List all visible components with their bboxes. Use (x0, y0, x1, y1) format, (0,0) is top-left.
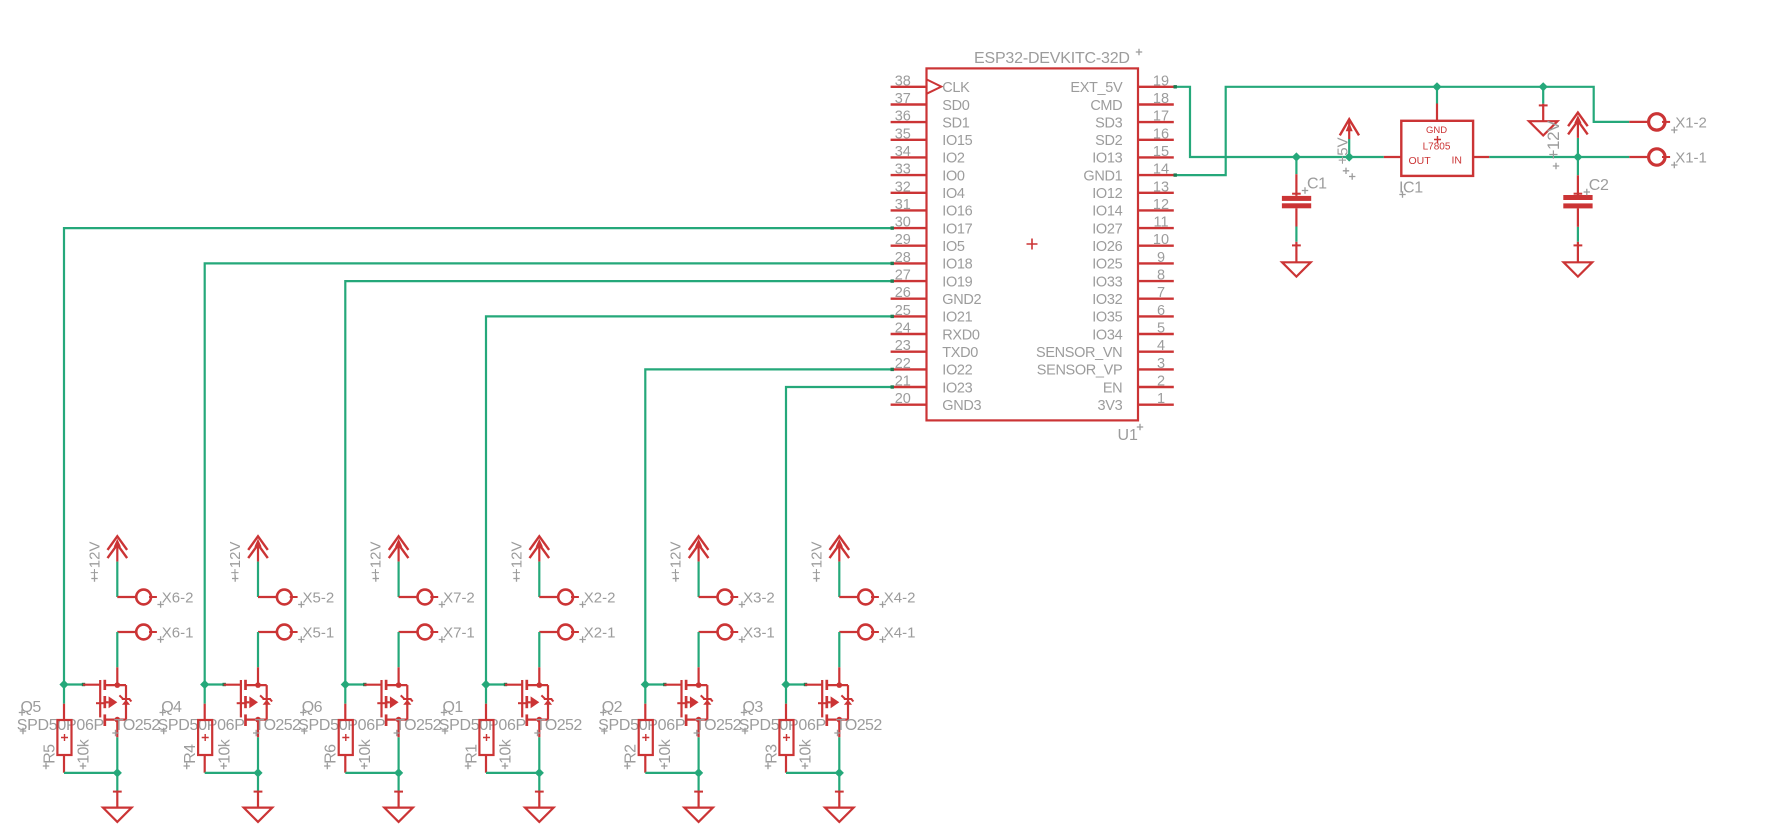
svg-text:X1-1: X1-1 (1675, 150, 1707, 167)
U1 pin 7 IO32 (1092, 285, 1174, 308)
svg-text:X2-2: X2-2 (584, 589, 616, 606)
svg-text:IO18: IO18 (942, 257, 972, 273)
wire R2 bottom to source node (645, 772, 698, 774)
label R6 value 10k (357, 738, 374, 769)
label X6-1 (157, 624, 193, 642)
resistor R4 10k (198, 685, 212, 773)
svg-text:X7-1: X7-1 (443, 624, 475, 641)
U1 pin 2 EN (1103, 374, 1174, 397)
svg-text:36: 36 (895, 109, 911, 125)
wire net from U1 pin to gate of Q5 (64, 226, 894, 684)
svg-text:X1-2: X1-2 (1675, 115, 1707, 132)
svg-text:30: 30 (895, 215, 911, 231)
svg-text:CMD: CMD (1090, 98, 1122, 114)
ground GND top (1529, 104, 1558, 136)
label R2 value 10k (657, 738, 674, 769)
svg-text:IO15: IO15 (942, 133, 972, 149)
svg-text:10k: 10k (498, 738, 515, 764)
wire net from U1 pin to gate of Q2 (645, 368, 894, 685)
svg-text:OUT: OUT (1409, 155, 1432, 167)
label Q1 package TO252 (534, 717, 582, 736)
label U1 reference designator (1118, 424, 1144, 444)
U1 pin 13 IO12 (1092, 179, 1174, 202)
label Q3 package TO252 (834, 717, 882, 736)
connector pad X6-1 (136, 625, 157, 640)
connector pad X4-2 (858, 590, 879, 605)
svg-text:X3-2: X3-2 (743, 589, 775, 606)
label Q4 value SPD50P06P (158, 717, 245, 734)
svg-text:TO252: TO252 (255, 717, 301, 734)
transistor Q1 P-MOSFET SPD50P06P (505, 667, 553, 737)
wire pad X7-1 to drain of Q6 (399, 632, 417, 667)
wire gate stub Q2 (645, 683, 666, 686)
svg-text:10k: 10k (657, 738, 674, 764)
svg-text:X4-2: X4-2 (884, 589, 916, 606)
wire pad X4-1 to drain of Q3 (839, 632, 857, 667)
svg-text:20: 20 (895, 391, 911, 407)
label X6-2 (157, 589, 193, 607)
svg-text:12: 12 (1153, 197, 1169, 213)
voltage regulator IC1 L7805 (1384, 104, 1490, 176)
label C1 (1302, 176, 1327, 194)
svg-text:GND: GND (1426, 125, 1447, 136)
svg-text:SD2: SD2 (1095, 133, 1122, 149)
supply symbol +12V X4 (830, 536, 850, 561)
wire net EXT_5V from U1 pin 19 to regulator OUT (1174, 85, 1384, 157)
junction source/ground node Q2 (694, 768, 703, 777)
svg-text:TO252: TO252 (395, 717, 441, 734)
label X2-1 (579, 624, 615, 642)
U1 pin 8 IO33 (1092, 268, 1174, 291)
svg-text:X7-2: X7-2 (443, 589, 475, 606)
wire gate stub Q6 (345, 683, 366, 686)
svg-text:R1: R1 (463, 744, 480, 764)
svg-text:Q3: Q3 (743, 699, 764, 716)
junction source/ground node Q6 (394, 768, 403, 777)
svg-text:X4-1: X4-1 (884, 624, 916, 641)
svg-text:IO2: IO2 (942, 151, 965, 167)
label Q6 (300, 699, 323, 716)
svg-text:X2-1: X2-1 (584, 624, 616, 641)
svg-text:21: 21 (895, 374, 911, 390)
U1 pin 16 SD2 (1095, 126, 1174, 149)
svg-text:19: 19 (1153, 73, 1169, 89)
wire +12V to pad X3-2 (699, 562, 717, 597)
svg-text:27: 27 (895, 268, 911, 284)
supply symbol +12V main (1568, 113, 1588, 138)
U1 pin 6 IO35 (1092, 303, 1174, 326)
svg-text:C2: C2 (1589, 177, 1609, 194)
svg-text:IO32: IO32 (1092, 292, 1122, 308)
label Q5 value SPD50P06P (17, 717, 104, 734)
connector pad X2-2 (558, 590, 579, 605)
svg-text:IO17: IO17 (942, 221, 972, 237)
svg-text:IN: IN (1452, 155, 1463, 167)
svg-text:IO25: IO25 (1092, 257, 1122, 273)
U1 pin 17 SD3 (1095, 109, 1174, 132)
wire +12V to pad X4-2 (839, 562, 857, 597)
wire gate stub Q1 (486, 683, 507, 686)
wire gate stub Q5 (64, 683, 85, 686)
U1 pin 21 IO23 (891, 374, 973, 397)
label X3-2 (739, 589, 775, 607)
junction GND at ground symbol (1539, 82, 1548, 91)
svg-text:3V3: 3V3 (1098, 398, 1123, 414)
wire +12V to pad X5-2 (258, 562, 276, 597)
svg-text:IO16: IO16 (942, 204, 972, 220)
svg-text:18: 18 (1153, 91, 1169, 107)
label R4 (182, 744, 199, 769)
wire R6 bottom to source node (345, 772, 398, 774)
U1 pin 26 GND2 (891, 285, 982, 308)
junction gate node Q6 (341, 680, 350, 689)
wire pad X6-1 to drain of Q5 (117, 632, 135, 667)
wire pad X2-1 to drain of Q1 (539, 632, 557, 667)
label R3 value 10k (798, 738, 815, 769)
connector pad X1-1 (1629, 149, 1670, 165)
svg-text:26: 26 (895, 285, 911, 301)
U1 pin 5 IO34 (1092, 321, 1174, 344)
label net +12V at X7 (368, 542, 385, 582)
ground below Q5 (103, 791, 132, 822)
svg-text:R3: R3 (763, 744, 780, 764)
junction GND at regulator (1432, 82, 1441, 91)
label Q6 value SPD50P06P (298, 717, 385, 734)
U1 pin 23 TXD0 (891, 338, 979, 361)
svg-text:3: 3 (1157, 356, 1165, 372)
clock input symbol on pin CLK (927, 79, 942, 93)
svg-text:R4: R4 (182, 744, 199, 764)
svg-text:Q1: Q1 (443, 699, 464, 716)
svg-text:+12V: +12V (86, 542, 103, 577)
transistor Q3 P-MOSFET SPD50P06P (805, 667, 853, 737)
U1 pin 11 IO27 (1092, 215, 1174, 238)
svg-text:14: 14 (1153, 162, 1169, 178)
wire net +12V from regulator IN to X1-1 (1489, 156, 1629, 158)
svg-text:SD1: SD1 (942, 115, 969, 131)
wire source of Q2 down (697, 737, 699, 773)
U1 pin 34 IO2 (891, 144, 965, 167)
label Q1 (441, 699, 464, 716)
label R1 value 10k (498, 738, 515, 769)
label R2 (623, 744, 640, 769)
svg-text:IO21: IO21 (942, 310, 972, 326)
junction C1 top (1292, 152, 1301, 161)
label X1-1 (1671, 150, 1707, 169)
svg-text:IO23: IO23 (942, 380, 972, 396)
wire to ground Q4 (257, 773, 259, 791)
connector pad X5-2 (277, 590, 298, 605)
resistor R6 10k (339, 685, 353, 773)
wire to ground Q1 (538, 773, 540, 791)
svg-text:15: 15 (1153, 144, 1169, 160)
svg-text:16: 16 (1153, 126, 1169, 142)
svg-text:24: 24 (895, 321, 911, 337)
U1 pin 27 IO19 (891, 268, 973, 291)
label Q4 package TO252 (253, 717, 301, 736)
label R1 (463, 744, 480, 769)
svg-text:25: 25 (895, 303, 911, 319)
label R4 value 10k (216, 738, 233, 769)
wire net GND from U1 pin 14 GND1 along top (1174, 87, 1630, 177)
label Q2 (600, 699, 623, 716)
label R5 (41, 744, 58, 769)
wire pad X3-1 to drain of Q2 (699, 632, 717, 667)
junction gate node Q2 (641, 680, 650, 689)
svg-text:13: 13 (1153, 179, 1169, 195)
svg-text:GND1: GND1 (1083, 168, 1122, 184)
ground below C1 (1282, 242, 1311, 277)
svg-text:Q5: Q5 (21, 699, 42, 716)
svg-text:33: 33 (895, 162, 911, 178)
ground below Q3 (825, 791, 854, 822)
svg-text:RXD0: RXD0 (942, 327, 980, 343)
wire net from U1 pin to gate of Q3 (786, 385, 894, 684)
svg-text:C1: C1 (1307, 176, 1327, 193)
svg-text:17: 17 (1153, 109, 1169, 125)
label Q5 (19, 699, 42, 716)
U1 pin 29 IO5 (891, 232, 965, 255)
svg-text:IO26: IO26 (1092, 239, 1122, 255)
wire gate stub Q3 (786, 683, 807, 686)
svg-text:L7805: L7805 (1423, 142, 1451, 153)
svg-text:10k: 10k (798, 738, 815, 764)
supply symbol +5V (1340, 119, 1359, 157)
connector pad X7-2 (418, 590, 439, 605)
label Q2 package TO252 (694, 717, 742, 736)
label net +12V at X3 (668, 542, 685, 582)
label net +12V at X6 (86, 542, 103, 582)
junction gate node Q3 (781, 680, 790, 689)
wire source of Q6 down (398, 737, 400, 773)
svg-text:11: 11 (1153, 215, 1168, 231)
U1 pin 35 IO15 (891, 126, 973, 149)
label R5 value 10k (76, 738, 93, 769)
svg-text:+12V: +12V (368, 542, 385, 577)
label net +12V at X4 (808, 542, 825, 582)
wire to ground Q6 (398, 773, 400, 791)
svg-text:IO35: IO35 (1092, 310, 1122, 326)
junction source/ground node Q5 (113, 768, 122, 777)
label Q5 package TO252 (112, 717, 160, 736)
U1 pin 18 CMD (1090, 91, 1173, 114)
label Q1 value SPD50P06P (439, 717, 526, 734)
label net +12V at X2 (508, 542, 525, 582)
transistor Q5 P-MOSFET SPD50P06P (83, 667, 131, 737)
svg-text:10: 10 (1153, 232, 1169, 248)
svg-text:+12V: +12V (1544, 120, 1563, 160)
U1 pin 37 SD0 (891, 91, 970, 114)
svg-text:10k: 10k (357, 738, 374, 764)
svg-text:TO252: TO252 (836, 717, 882, 734)
svg-text:EXT_5V: EXT_5V (1070, 80, 1123, 96)
label X4-1 (879, 624, 915, 642)
junction gate node Q1 (481, 680, 490, 689)
svg-text:R5: R5 (41, 744, 58, 764)
resistor R1 10k (479, 685, 493, 773)
svg-text:SENSOR_VP: SENSOR_VP (1037, 363, 1123, 379)
svg-text:10k: 10k (216, 738, 233, 764)
label X2-2 (579, 589, 615, 607)
svg-text:5: 5 (1157, 321, 1165, 337)
U1 origin cross (1027, 239, 1038, 250)
svg-text:SD0: SD0 (942, 98, 969, 114)
U1 pin 31 IO16 (891, 197, 973, 220)
svg-text:SD3: SD3 (1095, 115, 1122, 131)
label net +12V main (1544, 120, 1563, 169)
supply symbol +12V X7 (389, 536, 409, 561)
capacitor C2 (1563, 157, 1592, 242)
transistor Q2 P-MOSFET SPD50P06P (664, 667, 712, 737)
resistor R2 10k (639, 685, 653, 773)
transistor Q6 P-MOSFET SPD50P06P (364, 667, 412, 737)
svg-text:Q6: Q6 (302, 699, 323, 716)
svg-text:TXD0: TXD0 (942, 345, 978, 361)
label Q2 value SPD50P06P (598, 717, 685, 734)
wire net from U1 pin to gate of Q1 (486, 315, 894, 685)
connector pad X3-1 (718, 625, 739, 640)
svg-text:Q2: Q2 (602, 699, 623, 716)
svg-text:X6-1: X6-1 (162, 624, 194, 641)
U1 pin 1 3V3 (1098, 391, 1174, 414)
label X7-2 (439, 589, 475, 607)
connector pad X2-1 (558, 625, 579, 640)
resistor R3 10k (779, 685, 793, 773)
U1 pin 12 IO14 (1092, 197, 1174, 220)
supply symbol +12V X3 (689, 536, 709, 561)
U1 pin 24 RXD0 (891, 321, 980, 344)
label X5-2 (298, 589, 334, 607)
svg-text:IO13: IO13 (1092, 151, 1122, 167)
svg-text:TO252: TO252 (536, 717, 582, 734)
svg-text:TO252: TO252 (695, 717, 741, 734)
label Q3 value SPD50P06P (739, 717, 826, 734)
svg-text:6: 6 (1157, 303, 1165, 319)
U1 pin 3 SENSOR_VP (1037, 356, 1174, 379)
svg-text:X3-1: X3-1 (743, 624, 775, 641)
svg-text:X5-2: X5-2 (303, 589, 335, 606)
U1 pin 14 GND1 (1083, 162, 1173, 185)
label net +5V (1335, 137, 1356, 179)
svg-text:7: 7 (1157, 285, 1165, 301)
U1 pin 19 EXT_5V (1070, 73, 1173, 96)
wire to ground Q5 (116, 773, 118, 791)
label U1 part name ESP32-DEVKITC-32D (974, 49, 1142, 67)
label X1-2 (1671, 115, 1707, 134)
U1 pin 9 IO25 (1092, 250, 1174, 273)
svg-text:Q4: Q4 (161, 699, 182, 716)
label IC1 (1399, 180, 1423, 198)
svg-text:R6: R6 (323, 744, 340, 764)
junction gate node Q4 (200, 680, 209, 689)
U1 pin 38 CLK (891, 73, 971, 96)
wire gate stub Q4 (205, 683, 226, 686)
junction +5V node (1345, 152, 1354, 161)
junction +12V node (1573, 152, 1582, 161)
transistor Q4 P-MOSFET SPD50P06P (224, 667, 272, 737)
label Q4 (160, 699, 183, 716)
svg-text:X5-1: X5-1 (303, 624, 335, 641)
wire R5 bottom to source node (64, 772, 117, 774)
svg-text:+12V: +12V (508, 542, 525, 577)
wire pad X5-1 to drain of Q4 (258, 632, 276, 667)
svg-text:34: 34 (895, 144, 911, 160)
U1 pin 30 IO17 (891, 215, 973, 238)
U1 pin 36 SD1 (891, 109, 970, 132)
wire net from U1 pin to gate of Q6 (345, 279, 894, 684)
svg-text:IO12: IO12 (1092, 186, 1122, 202)
svg-text:22: 22 (895, 356, 911, 372)
svg-text:8: 8 (1157, 268, 1165, 284)
connector pad X7-1 (418, 625, 439, 640)
svg-text:TO252: TO252 (114, 717, 160, 734)
wire source of Q1 down (538, 737, 540, 773)
svg-text:35: 35 (895, 126, 911, 142)
svg-text:32: 32 (895, 179, 911, 195)
svg-text:4: 4 (1157, 338, 1165, 354)
svg-text:1: 1 (1157, 391, 1165, 407)
connector pad X3-2 (718, 590, 739, 605)
svg-text:+12V: +12V (808, 542, 825, 577)
svg-text:IO14: IO14 (1092, 204, 1122, 220)
junction source/ground node Q4 (253, 768, 262, 777)
junction source/ground node Q3 (835, 768, 844, 777)
svg-text:28: 28 (895, 250, 911, 266)
svg-text:IO4: IO4 (942, 186, 965, 202)
ground below Q1 (525, 791, 554, 822)
U1 pin 22 IO22 (891, 356, 973, 379)
svg-text:SENSOR_VN: SENSOR_VN (1036, 345, 1122, 361)
svg-text:9: 9 (1157, 250, 1165, 266)
svg-text:29: 29 (895, 232, 911, 248)
ground below Q4 (244, 791, 273, 822)
ground below Q6 (384, 791, 413, 822)
label Q6 package TO252 (394, 717, 442, 736)
label net +12V at X5 (227, 542, 244, 582)
U1 pin 25 IO21 (891, 303, 973, 326)
svg-text:23: 23 (895, 338, 911, 354)
svg-text:2: 2 (1157, 374, 1165, 390)
wire R4 bottom to source node (205, 772, 258, 774)
U1 pin 10 IO26 (1092, 232, 1174, 255)
label Q3 (741, 699, 764, 716)
label X3-1 (739, 624, 775, 642)
connector pad X6-2 (136, 590, 157, 605)
svg-text:IO5: IO5 (942, 239, 965, 255)
svg-text:IO0: IO0 (942, 168, 965, 184)
svg-text:R2: R2 (623, 744, 640, 764)
svg-text:IO34: IO34 (1092, 327, 1122, 343)
svg-text:+12V: +12V (227, 542, 244, 577)
wire to ground Q2 (697, 773, 699, 791)
svg-text:IO27: IO27 (1092, 221, 1122, 237)
wire GND symbol lead (1542, 87, 1544, 104)
label R6 (323, 744, 340, 769)
U1 pin 4 SENSOR_VN (1036, 338, 1174, 361)
IC U1 ESP32-DEVKITC-32D body (927, 68, 1139, 420)
wire source of Q3 down (838, 737, 840, 773)
svg-text:X6-2: X6-2 (162, 589, 194, 606)
U1 pin 32 IO4 (891, 179, 965, 202)
svg-text:IO22: IO22 (942, 363, 972, 379)
svg-text:CLK: CLK (942, 80, 970, 96)
capacitor C1 (1282, 157, 1311, 242)
supply symbol +12V X6 (108, 536, 128, 561)
svg-text:U1: U1 (1118, 427, 1139, 444)
wire +12V symbol drop (1577, 138, 1579, 157)
connector pad X4-1 (858, 625, 879, 640)
label X7-1 (439, 624, 475, 642)
